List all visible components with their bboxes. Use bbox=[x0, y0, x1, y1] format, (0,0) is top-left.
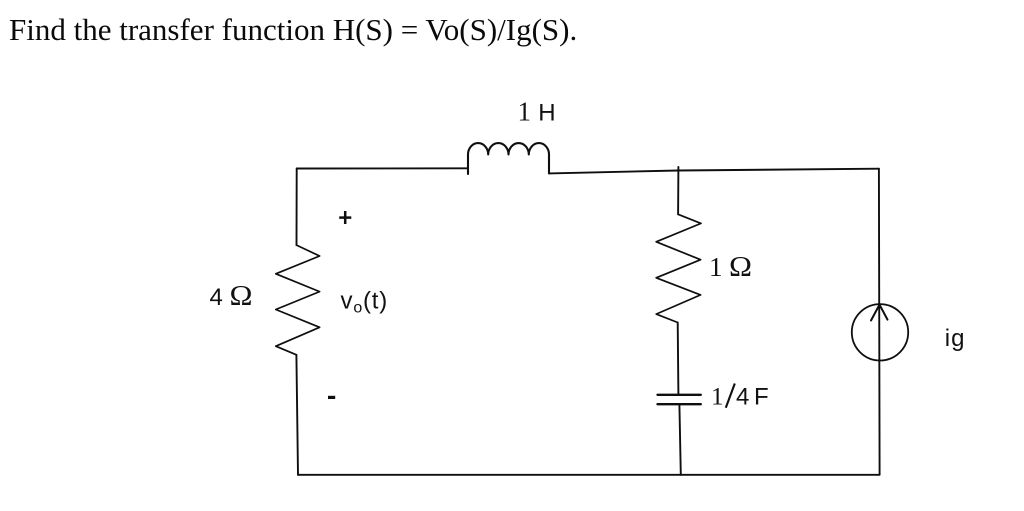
svg-text:F: F bbox=[754, 383, 769, 410]
wire top-right slanted bbox=[549, 169, 879, 174]
svg-text:1: 1 bbox=[711, 383, 724, 410]
svg-text:4: 4 bbox=[736, 383, 749, 410]
svg-text:vo(t): vo(t) bbox=[341, 288, 389, 317]
svg-text:Ω: Ω bbox=[729, 252, 752, 283]
wire left vertical lower bbox=[296, 355, 298, 475]
wire right vertical through source bbox=[878, 169, 881, 475]
capacitor C top plate bbox=[658, 394, 701, 396]
svg-text:Ω: Ω bbox=[230, 281, 253, 312]
inductor L 1H coil bbox=[468, 143, 549, 174]
svg-text:1: 1 bbox=[709, 252, 723, 282]
wire middle vertical lower bbox=[679, 404, 680, 475]
current source circle bbox=[852, 304, 908, 360]
wire middle vertical mid bbox=[677, 323, 680, 395]
capacitor C bottom plate bbox=[658, 403, 701, 405]
wire bottom horizontal bbox=[298, 474, 879, 476]
wire left vertical upper bbox=[296, 169, 298, 246]
svg-text:ig: ig bbox=[945, 325, 966, 352]
label minus bbox=[328, 396, 335, 399]
svg-text:4: 4 bbox=[210, 284, 223, 311]
resistor R 4ohm zigzag bbox=[276, 245, 320, 355]
wire middle vertical upper bbox=[677, 167, 679, 214]
label plus bbox=[339, 216, 351, 219]
resistor R 1ohm zigzag bbox=[656, 214, 701, 322]
svg-text:1: 1 bbox=[518, 97, 532, 127]
svg-text:H: H bbox=[538, 100, 555, 127]
current source arrowhead bbox=[871, 305, 888, 321]
wire top-left horizontal bbox=[297, 167, 468, 169]
title bbox=[9, 12, 577, 48]
